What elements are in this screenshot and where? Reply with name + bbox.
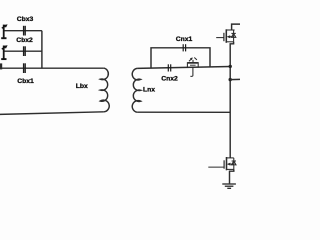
wire J2 stub to right edge [230, 78, 240, 80]
transistor Q3 (bottom right) [208, 157, 236, 170]
svg-text:Lbx: Lbx [76, 83, 88, 90]
transistor QL1 (left edge, cut off) [1, 24, 7, 39]
capacitor Cnx2 [168, 64, 170, 71]
capacitor Cbx1 [24, 63, 26, 73]
wire bus joining branches [41, 31, 43, 68]
ground [222, 184, 236, 188]
capacitor Cbx2 [24, 46, 26, 56]
wire RX bottom (secondary bottom to right bus) [137, 111, 230, 113]
transistor QL2 (left edge, cut off) [1, 45, 7, 60]
transistor Q1 (top right) [216, 29, 236, 43]
transistor Q2 (series switch on RX wire) [187, 58, 198, 77]
wire Q3 source to ground [230, 169, 234, 183]
svg-text:Cbx2: Cbx2 [16, 37, 33, 44]
node stub (left edge, cut off) [0, 63, 2, 69]
capacitor Cnx1 [183, 44, 185, 51]
svg-text:Cnx1: Cnx1 [176, 36, 193, 43]
capacitor Cbx3 [24, 26, 26, 36]
inductor Lbx (transformer primary) [100, 68, 109, 112]
wire branch 2 [5, 50, 42, 52]
wire RX main (secondary top to right bus) [137, 67, 230, 69]
svg-text:Lnx: Lnx [143, 86, 155, 93]
svg-text:Cbx1: Cbx1 [17, 78, 34, 85]
wire Q1 source to bus [230, 42, 233, 158]
wire Q1 drain to top edge [232, 24, 240, 30]
wire branch 1 [5, 30, 42, 32]
wire branch 3 / TX top wire [0, 67, 104, 69]
svg-text:Cbx3: Cbx3 [17, 16, 34, 23]
svg-text:Cnx2: Cnx2 [161, 76, 178, 83]
wire Cnx1 bypass box [151, 48, 210, 68]
node junction J1 [229, 65, 232, 68]
inductor Lnx (transformer secondary) [132, 68, 140, 112]
node junction J2 [229, 78, 232, 81]
wire TX bottom return [0, 112, 104, 115]
